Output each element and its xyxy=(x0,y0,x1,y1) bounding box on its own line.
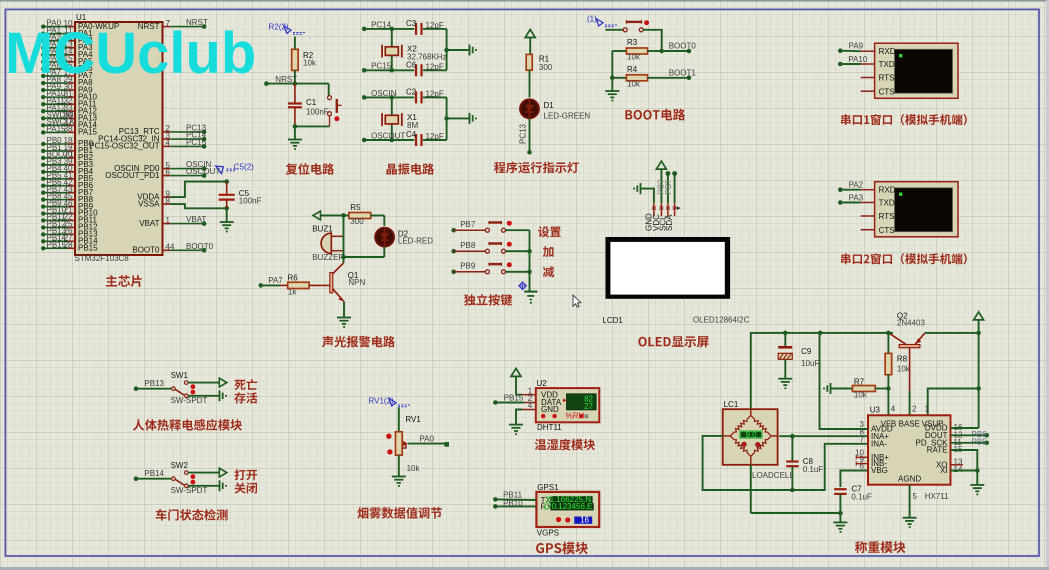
caption serial1 window xyxy=(841,114,967,125)
wire SDA pullup xyxy=(672,171,677,203)
svg-text:BUZZER: BUZZER xyxy=(312,253,344,262)
svg-text:LCD1: LCD1 xyxy=(602,316,623,325)
svg-text:C4: C4 xyxy=(406,130,417,139)
svg-text:U3: U3 xyxy=(870,406,881,415)
svg-text:10k: 10k xyxy=(627,79,641,88)
svg-text:PC14: PC14 xyxy=(371,20,392,29)
svg-text:C3: C3 xyxy=(406,19,417,28)
virtual terminal serial1 xyxy=(861,43,958,98)
probe label C5(2) xyxy=(216,162,254,173)
ground R7 left xyxy=(823,383,852,394)
ground RV1 xyxy=(392,476,406,478)
svg-text:12pF: 12pF xyxy=(426,132,444,141)
svg-text:INA-: INA- xyxy=(871,439,887,448)
wire collector node xyxy=(341,215,384,263)
svg-text:PB7: PB7 xyxy=(460,220,476,229)
capacitor C8 xyxy=(786,436,823,490)
svg-text:R3: R3 xyxy=(627,38,638,47)
wire avdd rail xyxy=(751,331,893,410)
svg-text:BUZ1: BUZ1 xyxy=(312,225,333,234)
mcu U1 STM32F103C8 xyxy=(41,13,220,263)
svg-text:C5(2): C5(2) xyxy=(234,162,254,171)
caption serial2 window xyxy=(841,253,967,264)
svg-text:PB?: PB? xyxy=(664,179,673,195)
svg-text:SW2: SW2 xyxy=(171,461,189,470)
probe label RV1(2) xyxy=(369,396,412,407)
ground RATE xyxy=(970,484,984,486)
wire R3 R4 left xyxy=(610,51,615,91)
probe label R2(2) xyxy=(269,23,307,35)
svg-text:VBAT: VBAT xyxy=(139,219,159,228)
svg-text:120.123456,E: 120.123456,E xyxy=(543,502,593,511)
svg-text:PC15: PC15 xyxy=(186,138,207,147)
caption plus xyxy=(543,246,554,257)
power arrow indicator xyxy=(525,30,535,55)
svg-text:32.768KHz: 32.768KHz xyxy=(407,52,447,61)
capacitor C2 xyxy=(406,88,447,104)
power arrow alarm xyxy=(313,211,349,220)
svg-text:5: 5 xyxy=(913,492,918,501)
transistor Q2 2N4403 xyxy=(889,312,981,416)
svg-text:PB9: PB9 xyxy=(460,262,476,271)
hx711 U3 xyxy=(855,405,963,502)
caption run indicator xyxy=(494,162,579,174)
svg-text:NPN: NPN xyxy=(348,278,365,287)
svg-text:PC15: PC15 xyxy=(371,62,392,71)
svg-text:LC1: LC1 xyxy=(724,400,739,409)
svg-text:300: 300 xyxy=(539,63,553,72)
push button PB7 xyxy=(451,220,529,233)
wire PA3 xyxy=(838,193,864,204)
caption OLED display xyxy=(638,336,708,347)
caption crystal circuit xyxy=(387,163,435,175)
wire DVDD pin16 xyxy=(951,427,979,429)
led D2 xyxy=(374,216,433,258)
svg-text:1: 1 xyxy=(925,405,930,414)
wire button bus xyxy=(527,230,532,291)
wire AGND pin5 xyxy=(909,485,911,518)
svg-text:RATE: RATE xyxy=(927,446,948,455)
caption BOOT circuit xyxy=(625,109,685,121)
svg-text:R5: R5 xyxy=(350,203,361,212)
svg-text:R7: R7 xyxy=(854,378,865,387)
caption minus xyxy=(543,266,554,277)
power arrow OLED xyxy=(656,161,666,203)
svg-text:CTS: CTS xyxy=(879,226,895,235)
svg-text:SW-SPDT: SW-SPDT xyxy=(171,486,208,495)
capacitor C5 xyxy=(170,179,261,222)
node BOOT0 xyxy=(662,42,697,54)
svg-text:BOOT0: BOOT0 xyxy=(132,246,160,255)
svg-text:AGND: AGND xyxy=(898,475,921,484)
svg-text:PA2: PA2 xyxy=(849,181,864,190)
svg-text:PA9: PA9 xyxy=(849,42,864,51)
crystal X2 xyxy=(382,27,446,73)
ground AGND xyxy=(903,517,917,519)
svg-text:10k: 10k xyxy=(627,53,641,62)
wire PA9 xyxy=(838,42,864,53)
caption set xyxy=(538,226,561,237)
svg-text:0.1uF: 0.1uF xyxy=(851,493,872,502)
resistor R5 xyxy=(349,203,384,226)
wire button to BOOT0 node xyxy=(643,30,664,54)
svg-text:OSCOUT: OSCOUT xyxy=(371,131,405,140)
svg-text:BOOT0: BOOT0 xyxy=(186,242,214,251)
wire C1 to button xyxy=(293,124,330,139)
push button reset xyxy=(328,84,342,127)
caption temperature humidity module xyxy=(535,439,595,451)
potentiometer RV1 xyxy=(386,408,449,477)
caption reset circuit xyxy=(286,163,334,175)
svg-text:BOOT0: BOOT0 xyxy=(669,42,697,51)
wire INA+ net xyxy=(779,434,868,439)
power arrow weighing xyxy=(974,312,984,428)
svg-text:10k: 10k xyxy=(897,365,911,374)
svg-text:C1: C1 xyxy=(306,98,317,107)
node BOOT1 xyxy=(648,69,697,81)
node PC14 wire xyxy=(362,20,414,31)
svg-text:10k: 10k xyxy=(407,464,421,473)
svg-text:HX711: HX711 xyxy=(925,492,949,501)
svg-text:PB13: PB13 xyxy=(144,379,164,388)
node OSCIN wire xyxy=(362,89,414,100)
svg-text:100nF: 100nF xyxy=(239,196,262,205)
caption closed xyxy=(235,482,258,493)
svg-text:C2: C2 xyxy=(406,88,417,97)
svg-text:100nF: 100nF xyxy=(306,108,329,117)
svg-text:SDA: SDA xyxy=(665,214,674,231)
svg-text:GND: GND xyxy=(541,405,559,414)
ground alarm xyxy=(337,317,351,319)
svg-text:VSSA: VSSA xyxy=(138,199,160,208)
caption main chip xyxy=(106,275,142,287)
svg-text:0.1uF: 0.1uF xyxy=(803,465,824,474)
resistor R3 xyxy=(612,38,661,62)
ground DHT11 xyxy=(509,424,523,426)
ground reset xyxy=(288,139,302,141)
oled pin stubs xyxy=(645,203,682,231)
gps module GPS1 xyxy=(536,483,599,538)
svg-text:D1: D1 xyxy=(544,101,555,110)
ground OLED xyxy=(633,183,654,203)
resistor R7 xyxy=(852,378,890,400)
caption door status detect xyxy=(156,509,228,521)
svg-text:DHT11: DHT11 xyxy=(537,423,562,432)
blue probe diamond xyxy=(519,282,526,289)
svg-text:C6: C6 xyxy=(406,61,417,70)
svg-text:MCUclub: MCUclub xyxy=(5,21,256,86)
svg-text:RTS: RTS xyxy=(879,212,895,221)
node PC15 wire xyxy=(362,62,414,73)
svg-text:PB15: PB15 xyxy=(78,243,98,252)
svg-text:9.0: 9.0 xyxy=(745,430,757,439)
svg-text:16: 16 xyxy=(580,516,589,525)
svg-text:RTS: RTS xyxy=(879,74,895,83)
svg-text:PA7: PA7 xyxy=(268,276,283,285)
svg-text:RXD: RXD xyxy=(879,47,896,56)
dht11 U2 xyxy=(522,379,599,432)
capacitor C1 xyxy=(288,84,329,127)
svg-text:STM32F103C8: STM32F103C8 xyxy=(75,254,130,263)
svg-text:BOOT1: BOOT1 xyxy=(669,69,697,78)
wire PC13 net xyxy=(519,118,532,154)
svg-text:SW1: SW1 xyxy=(171,371,189,380)
svg-text:PB14: PB14 xyxy=(144,469,164,478)
switch SW1 SW-SPDT xyxy=(134,371,227,405)
svg-text:GPS1: GPS1 xyxy=(537,483,559,492)
svg-text:LED-RED: LED-RED xyxy=(398,236,433,245)
svg-text:PC15-OSC32_OUT: PC15-OSC32_OUT xyxy=(89,142,159,151)
caption alive xyxy=(234,392,257,403)
svg-text:R1: R1 xyxy=(539,55,550,64)
wire VSUP xyxy=(928,386,981,415)
caption open xyxy=(235,469,258,480)
svg-text:VBAT: VBAT xyxy=(186,215,206,224)
wire GND dht xyxy=(516,410,522,425)
svg-text:VGPS: VGPS xyxy=(537,529,559,538)
svg-text:PB8: PB8 xyxy=(460,241,476,250)
ground buttons xyxy=(524,292,537,304)
wire VBG C7 xyxy=(840,471,868,488)
capacitor C4 xyxy=(406,130,447,146)
net labels rotated xyxy=(657,179,674,195)
svg-text:27: 27 xyxy=(584,402,593,411)
wire LC1 bottom xyxy=(751,465,841,522)
led D1 xyxy=(519,70,590,120)
svg-text:LED-GREEN: LED-GREEN xyxy=(544,112,591,121)
resistor R1 xyxy=(526,54,553,72)
svg-text:PC13: PC13 xyxy=(519,123,528,144)
ground C7 xyxy=(833,521,847,523)
svg-text:TXD: TXD xyxy=(879,199,895,208)
transistor Q1 xyxy=(330,263,366,302)
caption independent buttons xyxy=(464,294,512,306)
push button PB9 xyxy=(451,262,529,275)
wire PB15 xyxy=(493,393,524,404)
caption weighing module xyxy=(855,541,906,553)
node NRST wire xyxy=(264,70,329,85)
wire INA- net xyxy=(703,436,868,492)
svg-text:4: 4 xyxy=(891,405,896,414)
caption smoke adjust xyxy=(357,507,442,519)
svg-text:OSCOUT_PD1: OSCOUT_PD1 xyxy=(105,171,160,180)
svg-text:2N4403: 2N4403 xyxy=(897,319,926,328)
resistor R2 xyxy=(292,37,317,71)
caption GPS module xyxy=(536,542,588,554)
ground C9 xyxy=(778,378,792,380)
ground for C5 xyxy=(220,221,234,223)
svg-text:SW-SPDT: SW-SPDT xyxy=(171,396,208,405)
svg-text:PA3: PA3 xyxy=(849,193,864,202)
svg-text:VBG: VBG xyxy=(871,466,888,475)
svg-text:R6: R6 xyxy=(288,273,299,282)
wire PA10 xyxy=(838,55,868,66)
svg-text:PA15: PA15 xyxy=(78,128,98,137)
resistor R6 xyxy=(259,273,330,296)
svg-text:R4: R4 xyxy=(627,65,638,74)
svg-text:PB15: PB15 xyxy=(504,393,524,402)
loadcell LC1 xyxy=(723,400,795,480)
power arrow DHT11 xyxy=(511,368,522,394)
svg-text:7: 7 xyxy=(860,435,865,444)
caption human sensor module xyxy=(133,419,242,431)
svg-text:RV1: RV1 xyxy=(405,415,421,424)
virtual terminal serial2 xyxy=(861,182,958,237)
push button boot xyxy=(606,20,650,32)
resistor R4 xyxy=(612,65,647,88)
svg-text:8M: 8M xyxy=(407,121,418,130)
svg-text:NRST: NRST xyxy=(275,75,297,84)
caption dead xyxy=(234,379,257,390)
ground crystal bottom xyxy=(444,97,477,140)
svg-text:12pF: 12pF xyxy=(426,63,444,72)
capacitor C7 xyxy=(834,485,872,516)
svg-text:10k: 10k xyxy=(854,391,868,400)
svg-text:PA0: PA0 xyxy=(419,435,434,444)
push button PB8 xyxy=(451,241,529,254)
svg-text:2: 2 xyxy=(912,405,917,414)
wire SCL pullup xyxy=(666,171,671,203)
ground crystal top xyxy=(444,29,477,70)
wire AVDD pin3 xyxy=(820,333,869,429)
wire PA2 xyxy=(838,181,864,192)
svg-text:OLED12864I2C: OLED12864I2C xyxy=(693,316,750,325)
svg-text:CTS: CTS xyxy=(879,87,895,96)
svg-text:14: 14 xyxy=(954,465,963,474)
mouse cursor xyxy=(573,295,581,307)
svg-text:10uF: 10uF xyxy=(801,359,819,368)
ground boot xyxy=(605,90,619,92)
resistor R8 xyxy=(885,331,911,416)
svg-text:PA10: PA10 xyxy=(848,55,868,64)
capacitor C3 xyxy=(406,19,447,35)
svg-text:C9: C9 xyxy=(801,347,812,356)
svg-text:XI: XI xyxy=(940,466,948,475)
probe label (1) xyxy=(587,15,618,27)
caption alarm circuit xyxy=(322,336,395,348)
svg-text:1k: 1k xyxy=(288,288,297,297)
capacitor C6 xyxy=(406,61,447,77)
svg-text:12pF: 12pF xyxy=(426,21,444,30)
wire PB11 xyxy=(493,491,536,502)
crystal X1 xyxy=(382,95,418,142)
svg-text:LOADCELL: LOADCELL xyxy=(752,471,794,480)
svg-text:OSCOUT: OSCOUT xyxy=(186,167,220,176)
wire PB10 xyxy=(493,499,536,509)
wire emitter to ground xyxy=(343,302,345,318)
svg-text:PA15: PA15 xyxy=(47,124,67,133)
switch SW2 SW-SPDT xyxy=(134,461,227,495)
capacitor C9 polarized xyxy=(778,333,819,379)
svg-text:4: 4 xyxy=(528,401,533,410)
svg-text:PB10: PB10 xyxy=(503,499,523,508)
svg-text:R8: R8 xyxy=(897,355,908,364)
svg-text:TXD: TXD xyxy=(879,60,895,69)
svg-text:12pF: 12pF xyxy=(426,90,444,99)
wire RATE XI xyxy=(951,450,980,485)
buzzer BUZ1 xyxy=(312,225,344,263)
wire PD_SCK PB5 xyxy=(951,438,990,447)
svg-text:10k: 10k xyxy=(303,59,317,68)
wire DOUT PB6 xyxy=(951,430,990,439)
svg-text:BASE: BASE xyxy=(899,419,920,428)
svg-text:300: 300 xyxy=(350,217,364,226)
oled display LCD1 xyxy=(602,237,749,325)
svg-text:RXD: RXD xyxy=(879,186,896,195)
svg-text:PB15: PB15 xyxy=(47,240,67,249)
node OSCOUT wire xyxy=(362,131,414,142)
svg-text:U2: U2 xyxy=(537,379,548,388)
svg-text:PB5: PB5 xyxy=(972,438,988,447)
